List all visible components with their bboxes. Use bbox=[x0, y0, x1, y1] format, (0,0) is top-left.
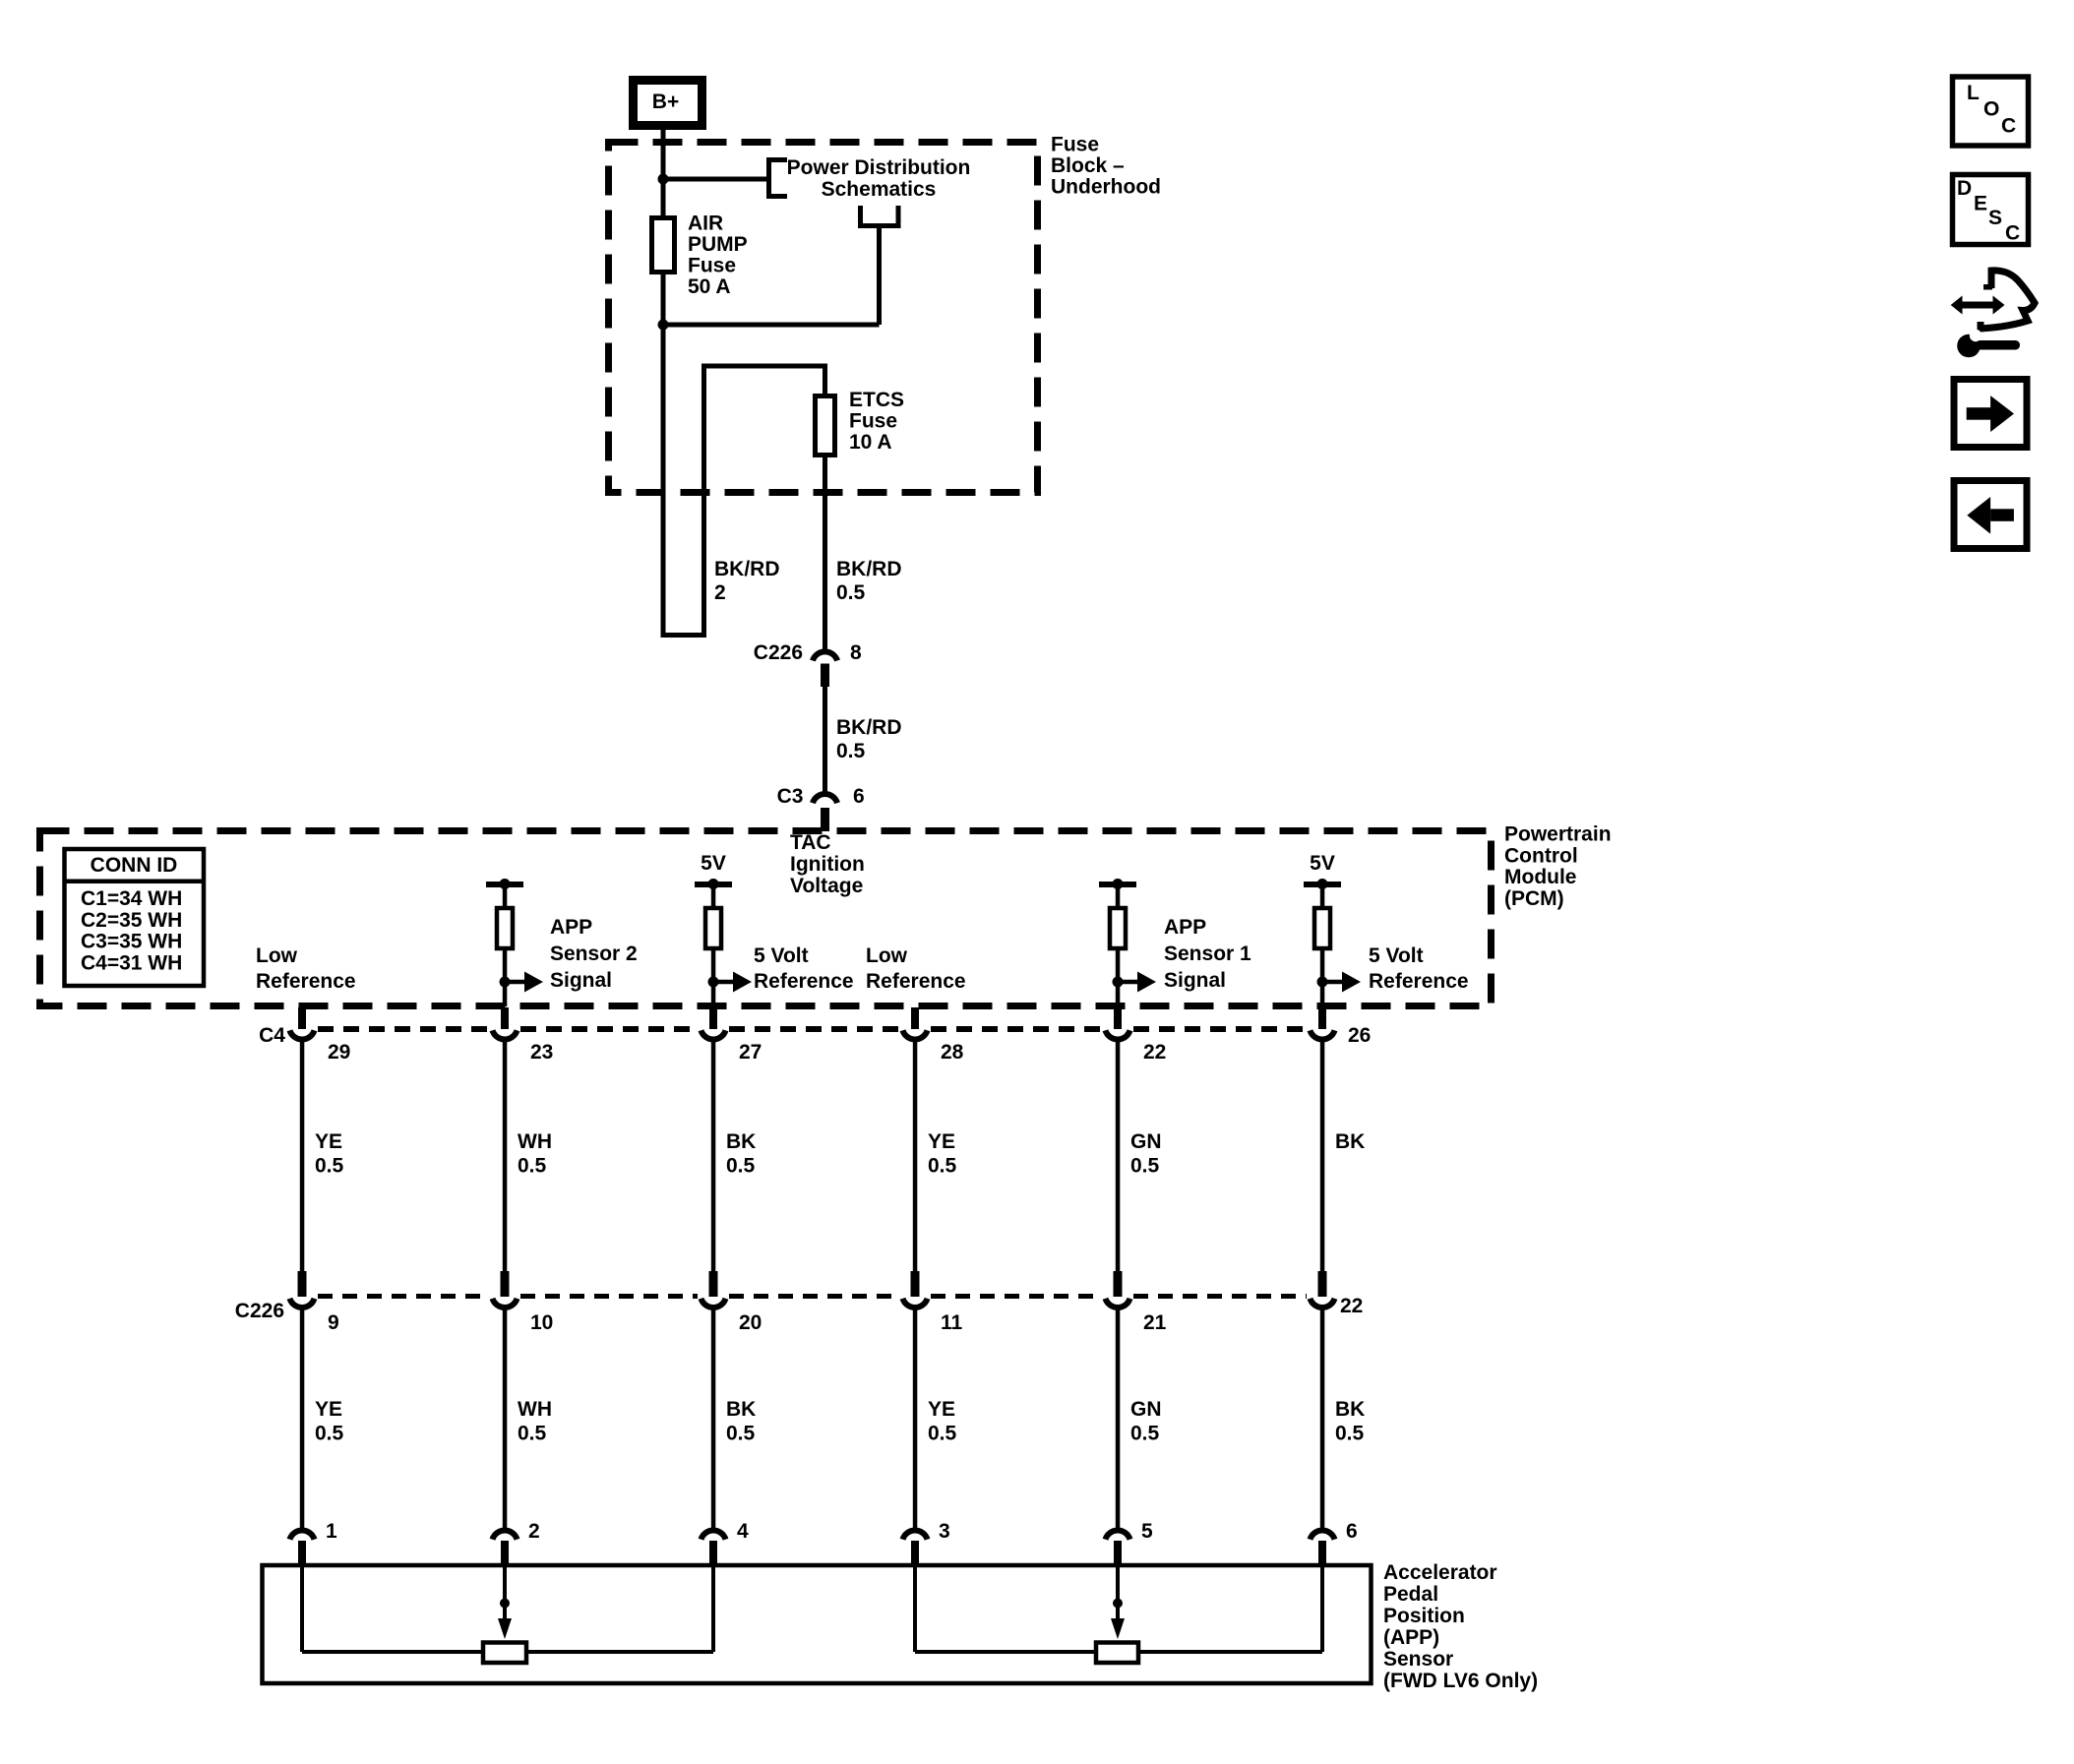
svg-text:B+: B+ bbox=[652, 91, 679, 113]
svg-text:YE: YE bbox=[928, 1130, 955, 1153]
wire segment C226 to APP sensor x=1136 bbox=[1116, 1308, 1121, 1529]
wire segment C226 to APP sensor x=513 bbox=[503, 1308, 508, 1529]
wire segment C4 to C226 x=513 bbox=[503, 1040, 508, 1273]
svg-text:Powertrain: Powertrain bbox=[1504, 823, 1612, 846]
label Powertrain Control Module (PCM) bbox=[1504, 823, 1612, 910]
voltage supply terminal at x=513 bbox=[486, 879, 523, 889]
svg-text:2: 2 bbox=[528, 1520, 540, 1543]
svg-text:6: 6 bbox=[853, 785, 865, 808]
label APP Sensor 2 Signal bbox=[550, 916, 638, 992]
node junction at B+ branch bbox=[658, 174, 669, 185]
svg-text:3: 3 bbox=[939, 1520, 950, 1543]
wire segment C4 to C226 x=1136 bbox=[1116, 1040, 1121, 1273]
power distribution tap bracket bbox=[766, 157, 787, 199]
svg-text:Fuse: Fuse bbox=[688, 255, 736, 277]
label BK/RD 0.5 lower bbox=[836, 716, 902, 762]
wire U-turn bottom bbox=[661, 633, 707, 638]
svg-text:AIR: AIR bbox=[688, 213, 723, 235]
svg-text:0.5: 0.5 bbox=[836, 581, 866, 604]
node signal junction x=1344 bbox=[1317, 977, 1328, 988]
icon box arrow left bbox=[1954, 481, 2027, 549]
svg-text:Low: Low bbox=[866, 944, 908, 967]
svg-text:0.5: 0.5 bbox=[726, 1423, 756, 1445]
svg-text:ETCS: ETCS bbox=[849, 389, 904, 411]
wire BK/RD 2 down leg bbox=[661, 325, 666, 638]
svg-text:Ignition: Ignition bbox=[790, 853, 865, 876]
wire from B+ into fuse block bbox=[661, 126, 666, 217]
wire supply to resistor x=1344 bbox=[1320, 887, 1325, 908]
label BK 0.5 bbox=[1335, 1398, 1365, 1445]
svg-text:L: L bbox=[1967, 82, 1980, 104]
resistor in PCM at x=725 bbox=[705, 908, 721, 948]
svg-text:Reference: Reference bbox=[256, 970, 356, 993]
wire pin3 into sensor bbox=[913, 1566, 917, 1652]
svg-text:0.5: 0.5 bbox=[315, 1423, 344, 1445]
svg-text:BK: BK bbox=[726, 1130, 756, 1153]
connector C4 terminal x=725 bbox=[701, 1007, 726, 1039]
wire resistor track right bbox=[915, 1650, 1096, 1654]
resistor in PCM at x=1344 bbox=[1314, 908, 1330, 948]
svg-text:Position: Position bbox=[1383, 1605, 1465, 1627]
label BK 0.5 bbox=[726, 1130, 756, 1178]
wire resistor to pin x=1136 bbox=[1116, 948, 1121, 1006]
svg-text:D: D bbox=[1957, 177, 1972, 200]
svg-text:Underhood: Underhood bbox=[1051, 176, 1161, 199]
svg-text:APP: APP bbox=[1164, 916, 1206, 939]
connector terminal pin 6 x=1344 bbox=[1311, 1531, 1335, 1566]
wire segment C226 to APP sensor x=930 bbox=[913, 1308, 918, 1529]
svg-text:BK: BK bbox=[1335, 1398, 1365, 1421]
svg-text:E: E bbox=[1974, 193, 1987, 215]
CONN ID table bbox=[65, 849, 205, 986]
icon jump with wrench bbox=[1951, 271, 2035, 357]
svg-text:YE: YE bbox=[315, 1130, 342, 1153]
wiper arrow pin 5 bbox=[1111, 1566, 1125, 1639]
svg-text:5V: 5V bbox=[701, 852, 726, 875]
label WH 0.5 bbox=[518, 1130, 552, 1178]
svg-text:27: 27 bbox=[739, 1041, 762, 1064]
svg-text:Low: Low bbox=[256, 944, 298, 967]
svg-text:5 Volt: 5 Volt bbox=[754, 944, 809, 967]
svg-text:0.5: 0.5 bbox=[1130, 1423, 1160, 1445]
svg-text:6: 6 bbox=[1346, 1520, 1358, 1543]
svg-text:5 Volt: 5 Volt bbox=[1369, 944, 1424, 967]
wire resistor to pin x=1344 bbox=[1320, 948, 1325, 1006]
wire supply to resistor x=725 bbox=[711, 887, 716, 908]
label 5 Volt Reference (right) bbox=[1369, 944, 1469, 993]
svg-text:YE: YE bbox=[315, 1398, 342, 1421]
wire segment C226 to APP sensor x=1344 bbox=[1320, 1308, 1325, 1529]
label YE 0.5 bbox=[928, 1130, 957, 1178]
resistor in PCM at x=1136 bbox=[1110, 908, 1126, 948]
wire supply to resistor x=1136 bbox=[1116, 887, 1121, 908]
connector C4 terminal x=513 bbox=[493, 1007, 518, 1039]
label 5 Volt Reference (left) bbox=[754, 944, 854, 993]
svg-text:C: C bbox=[2005, 222, 2020, 245]
svg-text:GN: GN bbox=[1130, 1398, 1162, 1421]
connector C226 terminal x=513 bbox=[493, 1271, 518, 1308]
label BK 0.5 bbox=[726, 1398, 756, 1445]
connector C4 terminal x=1136 bbox=[1106, 1007, 1130, 1039]
wire branch to power distribution tap bbox=[663, 177, 766, 182]
label YE 0.5 bbox=[315, 1130, 344, 1178]
label AIR PUMP Fuse 50 A bbox=[688, 213, 748, 299]
label ETCS Fuse 10 A bbox=[849, 389, 904, 454]
svg-text:C: C bbox=[2001, 115, 2016, 138]
label BK bbox=[1335, 1130, 1365, 1153]
label Low Reference (right) bbox=[866, 944, 966, 993]
connector terminal pin 4 x=725 bbox=[701, 1531, 726, 1566]
svg-text:CONN ID: CONN ID bbox=[91, 854, 178, 877]
wire segment C4 to C226 x=307 bbox=[300, 1040, 305, 1273]
svg-text:C226: C226 bbox=[754, 641, 803, 664]
label GN 0.5 bbox=[1130, 1130, 1162, 1178]
connector C226 terminal x=725 bbox=[701, 1271, 726, 1308]
svg-text:5: 5 bbox=[1141, 1520, 1153, 1543]
connector terminal pin 1 x=307 bbox=[290, 1531, 315, 1566]
svg-text:Sensor: Sensor bbox=[1383, 1648, 1453, 1671]
connector C226 terminal x=1136 bbox=[1106, 1271, 1130, 1308]
wire from schematics return down bbox=[877, 228, 882, 325]
svg-text:Control: Control bbox=[1504, 844, 1578, 867]
svg-text:22: 22 bbox=[1143, 1041, 1166, 1064]
svg-text:Module: Module bbox=[1504, 866, 1577, 888]
svg-text:C3: C3 bbox=[777, 785, 804, 808]
signal arrow x=1344 bbox=[1322, 972, 1361, 993]
svg-text:Sensor 2: Sensor 2 bbox=[550, 943, 638, 965]
node signal junction x=513 bbox=[500, 977, 511, 988]
svg-text:26: 26 bbox=[1348, 1024, 1371, 1047]
svg-text:29: 29 bbox=[328, 1041, 350, 1064]
connector terminal pin 2 x=513 bbox=[493, 1531, 518, 1566]
wire pin1 into sensor bbox=[300, 1566, 304, 1652]
label Power Distribution Schematics bbox=[787, 156, 971, 201]
connector terminal pin 3 x=930 bbox=[903, 1531, 928, 1566]
svg-text:Reference: Reference bbox=[866, 970, 966, 993]
svg-text:GN: GN bbox=[1130, 1130, 1162, 1153]
wire segment C4 to C226 x=1344 bbox=[1320, 1040, 1325, 1273]
svg-text:28: 28 bbox=[941, 1041, 964, 1064]
wire resistor to pin x=725 bbox=[711, 948, 716, 1006]
connector C226 terminal x=307 bbox=[290, 1271, 315, 1308]
svg-text:Sensor 1: Sensor 1 bbox=[1164, 943, 1251, 965]
APP sensor box bbox=[263, 1565, 1372, 1683]
svg-text:Block –: Block – bbox=[1051, 154, 1125, 177]
svg-text:Accelerator: Accelerator bbox=[1383, 1561, 1497, 1584]
wire resistor to pin x=513 bbox=[503, 948, 508, 1006]
label APP Sensor 1 Signal bbox=[1164, 916, 1251, 992]
svg-text:BK/RD: BK/RD bbox=[836, 716, 902, 739]
svg-text:9: 9 bbox=[328, 1311, 339, 1334]
signal arrow x=1136 bbox=[1118, 972, 1156, 993]
label TAC Ignition Voltage bbox=[790, 831, 865, 897]
resistor in PCM at x=513 bbox=[497, 908, 513, 948]
svg-text:Fuse: Fuse bbox=[849, 410, 897, 433]
svg-text:WH: WH bbox=[518, 1130, 552, 1153]
svg-text:Signal: Signal bbox=[1164, 969, 1226, 992]
wire BK/RD 0.5 between C226 and C3 bbox=[823, 686, 827, 797]
wiper arrow pin 2 bbox=[498, 1566, 512, 1639]
connector C4 terminal x=1344 bbox=[1311, 1007, 1335, 1039]
wire pin6 into sensor bbox=[1320, 1566, 1324, 1652]
svg-text:Schematics: Schematics bbox=[822, 178, 937, 201]
svg-text:Voltage: Voltage bbox=[790, 875, 863, 897]
node signal junction x=725 bbox=[708, 977, 719, 988]
wire segment C226 to APP sensor x=307 bbox=[300, 1308, 305, 1529]
connector C4 terminal x=930 bbox=[903, 1007, 928, 1039]
svg-text:1: 1 bbox=[326, 1520, 337, 1543]
svg-text:5V: 5V bbox=[1310, 852, 1335, 875]
svg-text:0.5: 0.5 bbox=[928, 1423, 957, 1445]
wire horizontal from junction to schematics drop bbox=[663, 323, 880, 328]
svg-text:Pedal: Pedal bbox=[1383, 1583, 1438, 1606]
power symbol B+ bbox=[634, 81, 702, 126]
svg-text:WH: WH bbox=[518, 1398, 552, 1421]
svg-text:11: 11 bbox=[941, 1311, 963, 1334]
fuse block dashed box bbox=[609, 143, 1038, 493]
power distribution schematics return bracket bbox=[858, 206, 901, 228]
svg-text:0.5: 0.5 bbox=[518, 1155, 547, 1178]
connector C3 pin 6 bbox=[813, 794, 837, 831]
svg-text:(PCM): (PCM) bbox=[1504, 887, 1564, 910]
svg-text:0.5: 0.5 bbox=[836, 740, 866, 762]
label YE 0.5 bbox=[928, 1398, 957, 1445]
svg-text:10: 10 bbox=[530, 1311, 553, 1334]
voltage supply terminal at x=725 bbox=[695, 879, 732, 889]
resistor APP sensor 2 track bbox=[483, 1643, 526, 1664]
svg-text:0.5: 0.5 bbox=[1335, 1423, 1365, 1445]
connector C226 terminal x=1344 bbox=[1311, 1271, 1335, 1308]
svg-text:50 A: 50 A bbox=[688, 275, 731, 298]
svg-text:0.5: 0.5 bbox=[726, 1155, 756, 1178]
wire segment C4 to C226 x=725 bbox=[711, 1040, 716, 1273]
svg-text:0.5: 0.5 bbox=[928, 1155, 957, 1178]
icon box arrow right bbox=[1954, 380, 2027, 448]
signal arrow x=513 bbox=[505, 972, 543, 993]
connector C226 dashed line bbox=[318, 1294, 1307, 1299]
svg-text:0.5: 0.5 bbox=[518, 1423, 547, 1445]
svg-text:TAC: TAC bbox=[790, 831, 831, 854]
label Low Reference (left) bbox=[256, 944, 356, 993]
svg-text:8: 8 bbox=[850, 641, 862, 664]
voltage supply terminal at x=1344 bbox=[1304, 879, 1341, 889]
connector C226 terminal x=930 bbox=[903, 1271, 928, 1308]
signal arrow x=725 bbox=[713, 972, 752, 993]
wire pin4 into sensor bbox=[711, 1566, 715, 1652]
wire supply to resistor x=513 bbox=[503, 887, 508, 908]
connector C4 terminal x=307 bbox=[290, 1007, 315, 1039]
wire BK/RD 2 up leg bbox=[701, 366, 706, 638]
connector terminal pin 5 x=1136 bbox=[1106, 1531, 1130, 1566]
wire ETCS drop to connector bbox=[823, 366, 827, 653]
wire segment C226 to APP sensor x=725 bbox=[711, 1308, 716, 1529]
svg-text:Reference: Reference bbox=[1369, 970, 1469, 993]
wire segment C4 to C226 x=930 bbox=[913, 1040, 918, 1273]
svg-text:Signal: Signal bbox=[550, 969, 612, 992]
label Fuse Block - Underhood bbox=[1051, 134, 1161, 199]
svg-text:S: S bbox=[1988, 207, 2002, 229]
svg-text:4: 4 bbox=[737, 1520, 749, 1543]
wire fuse output bbox=[661, 273, 666, 325]
label BK/RD 2 bbox=[714, 558, 780, 604]
svg-text:C4=31 WH: C4=31 WH bbox=[81, 952, 182, 975]
fuse AIR PUMP 50 A bbox=[652, 218, 675, 273]
svg-text:C2=35 WH: C2=35 WH bbox=[81, 909, 182, 932]
wire resistor track left bbox=[302, 1650, 483, 1654]
svg-text:C226: C226 bbox=[235, 1300, 284, 1322]
resistor APP sensor 1 track bbox=[1096, 1643, 1138, 1664]
voltage supply terminal at x=1136 bbox=[1099, 879, 1136, 889]
wire ETCS feed horizontal bbox=[701, 364, 827, 369]
svg-text:PUMP: PUMP bbox=[688, 233, 748, 256]
svg-text:BK: BK bbox=[1335, 1130, 1365, 1153]
svg-text:(APP): (APP) bbox=[1383, 1626, 1439, 1649]
svg-text:O: O bbox=[1983, 98, 1999, 121]
svg-text:C1=34 WH: C1=34 WH bbox=[81, 887, 182, 910]
PCM dashed box bbox=[40, 831, 1492, 1006]
svg-text:Fuse: Fuse bbox=[1051, 134, 1099, 156]
svg-text:BK: BK bbox=[726, 1398, 756, 1421]
label GN 0.5 bbox=[1130, 1398, 1162, 1445]
svg-text:22: 22 bbox=[1340, 1295, 1363, 1317]
svg-text:YE: YE bbox=[928, 1398, 955, 1421]
fuse ETCS 10 A bbox=[816, 396, 835, 456]
svg-text:0.5: 0.5 bbox=[1130, 1155, 1160, 1178]
svg-text:21: 21 bbox=[1143, 1311, 1167, 1334]
svg-text:0.5: 0.5 bbox=[315, 1155, 344, 1178]
label Accelerator Pedal Position (APP) Sensor (FWD LV6 Only) bbox=[1383, 1561, 1538, 1692]
svg-text:2: 2 bbox=[714, 581, 726, 604]
icon box DESC bbox=[1953, 175, 2029, 245]
svg-text:10 A: 10 A bbox=[849, 431, 892, 454]
connector C4 dotted line bbox=[318, 1026, 1307, 1032]
node signal junction x=1136 bbox=[1113, 977, 1124, 988]
svg-text:BK/RD: BK/RD bbox=[836, 558, 902, 580]
connector C226 pin 8 bbox=[813, 651, 837, 687]
svg-text:BK/RD: BK/RD bbox=[714, 558, 780, 580]
svg-text:Reference: Reference bbox=[754, 970, 854, 993]
svg-text:C4: C4 bbox=[259, 1024, 285, 1047]
label BK/RD 0.5 upper bbox=[836, 558, 902, 604]
svg-text:APP: APP bbox=[550, 916, 592, 939]
svg-text:C3=35 WH: C3=35 WH bbox=[81, 931, 182, 953]
label YE 0.5 bbox=[315, 1398, 344, 1445]
node junction at fuse output bbox=[658, 320, 669, 331]
icon box LOC bbox=[1953, 77, 2029, 146]
svg-text:Power Distribution: Power Distribution bbox=[787, 156, 971, 179]
svg-text:23: 23 bbox=[530, 1041, 553, 1064]
svg-text:(FWD LV6 Only): (FWD LV6 Only) bbox=[1383, 1670, 1538, 1692]
label WH 0.5 bbox=[518, 1398, 552, 1445]
svg-text:20: 20 bbox=[739, 1311, 762, 1334]
